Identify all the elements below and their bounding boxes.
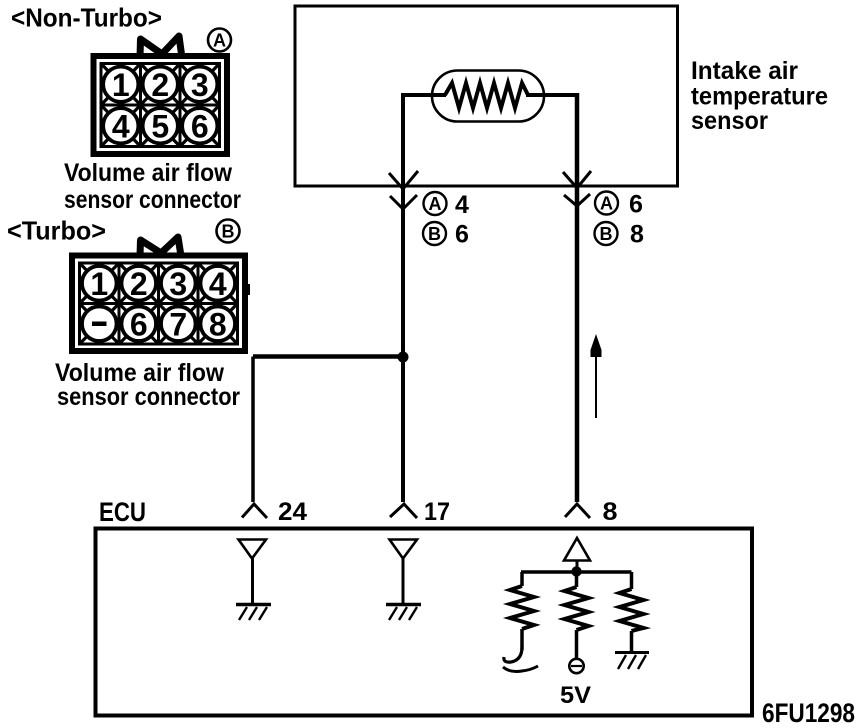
resistor R-mid zigzag bbox=[565, 587, 589, 630]
pin label B 6 (left wire) bbox=[423, 221, 469, 249]
connector A latch bbox=[140, 36, 182, 58]
svg-text:<Non-Turbo>: <Non-Turbo> bbox=[11, 3, 162, 33]
ECU pin 24 chevron bbox=[242, 504, 267, 518]
pin 5 bbox=[143, 108, 178, 144]
svg-text:3: 3 bbox=[191, 67, 209, 103]
connector B key tab on right edge bbox=[245, 284, 250, 295]
ground 2 bar bbox=[386, 603, 421, 607]
svg-text:3: 3 bbox=[169, 266, 187, 302]
resistor R-mid lead bottom bbox=[575, 630, 579, 659]
svg-text:6: 6 bbox=[191, 109, 209, 145]
pin 1 bbox=[103, 67, 138, 103]
svg-text:6: 6 bbox=[629, 191, 643, 219]
pin 7 bbox=[161, 306, 196, 342]
5V terminal circle bbox=[569, 659, 583, 673]
pin 4 bbox=[103, 108, 138, 144]
svg-text:24: 24 bbox=[278, 498, 307, 526]
pin 5 (blank dash) bbox=[82, 306, 117, 341]
svg-text:4: 4 bbox=[112, 109, 130, 145]
squiggle wire break bbox=[504, 647, 522, 662]
svg-text:1: 1 bbox=[112, 67, 130, 103]
current direction arrow (up) bbox=[591, 334, 602, 418]
svg-text:B: B bbox=[428, 224, 441, 244]
connector chevron (harness half) on left wire bbox=[390, 195, 417, 209]
wire: triangle to bus bbox=[576, 561, 579, 574]
svg-text:sensor connector: sensor connector bbox=[57, 383, 240, 411]
svg-text:B: B bbox=[222, 221, 235, 241]
svg-text:A: A bbox=[213, 30, 226, 50]
connector B body (8-pin) bbox=[72, 256, 245, 352]
svg-text:6: 6 bbox=[455, 221, 469, 249]
pin label B 8 (right wire) bbox=[595, 221, 645, 249]
svg-text:A: A bbox=[600, 193, 613, 213]
svg-text:5V: 5V bbox=[560, 682, 591, 709]
svg-text:A: A bbox=[429, 194, 442, 214]
wire: right vertical drop to ECU pin 8 bbox=[575, 93, 580, 502]
ground 3 bar bbox=[615, 651, 649, 654]
svg-text:<Turbo>: <Turbo> bbox=[7, 216, 106, 246]
wire: resistor right terminal horizontal bbox=[526, 93, 577, 97]
ground 2 wire bbox=[402, 559, 405, 605]
resistor R-right zigzag bbox=[620, 589, 644, 631]
ground 1 hatches bbox=[239, 607, 267, 620]
svg-text:5: 5 bbox=[151, 109, 169, 145]
squiggle tail bbox=[503, 666, 538, 672]
svg-text:Volume air flow: Volume air flow bbox=[64, 159, 233, 187]
pin 4 bbox=[200, 266, 235, 302]
ECU pin 17 chevron bbox=[390, 504, 417, 518]
svg-text:2: 2 bbox=[130, 266, 148, 302]
junction node (5V bus) bbox=[571, 566, 581, 576]
svg-text:7: 7 bbox=[169, 307, 187, 343]
resistor R-left lead bbox=[520, 572, 524, 586]
wire: left vertical drop to ECU pin 17 bbox=[401, 93, 405, 502]
designator B (circled) bbox=[217, 220, 240, 243]
ground 3 hatches bbox=[618, 655, 646, 669]
junction node bbox=[398, 352, 409, 363]
pin label A 4 (left wire) bbox=[424, 191, 470, 219]
connector chevron (sensor half) on right wire bbox=[563, 171, 591, 188]
svg-text:2: 2 bbox=[151, 67, 169, 103]
wire: resistor left terminal horizontal bbox=[403, 93, 446, 97]
ground 1 wire bbox=[251, 559, 254, 605]
svg-text:sensor connector: sensor connector bbox=[64, 186, 241, 214]
label Intake air temperature sensor bbox=[691, 57, 828, 135]
resistor R-left lead bottom bbox=[520, 629, 524, 650]
svg-text:1: 1 bbox=[90, 266, 108, 302]
ECU pin 8 chevron bbox=[565, 504, 590, 518]
ground 1 bar bbox=[236, 603, 271, 607]
svg-text:8: 8 bbox=[630, 221, 644, 249]
pin 3 bbox=[161, 266, 196, 302]
designator A (circled) bbox=[208, 29, 231, 52]
pin 2 bbox=[143, 67, 178, 103]
svg-text:Intake air: Intake air bbox=[691, 57, 798, 85]
connector chevron (sensor half) on left wire bbox=[389, 171, 418, 189]
svg-text:ECU: ECU bbox=[99, 497, 146, 527]
svg-text:sensor: sensor bbox=[691, 107, 768, 135]
resistor R-right lead bottom bbox=[630, 631, 634, 653]
ground 1 buffer triangle bbox=[239, 540, 267, 559]
ECU box bbox=[96, 529, 753, 716]
pin 2 bbox=[121, 266, 156, 302]
wire: vertical drop to ECU pin 24 bbox=[251, 357, 255, 503]
intake air temperature sensor box bbox=[295, 6, 678, 186]
pin label A 6 (right wire) bbox=[595, 191, 643, 219]
svg-text:6: 6 bbox=[130, 307, 148, 343]
ground 2 buffer triangle bbox=[390, 540, 418, 559]
resistor R-left zigzag bbox=[510, 586, 534, 629]
pin 8 bbox=[200, 306, 235, 342]
connector chevron (harness half) on right wire bbox=[564, 194, 590, 206]
thermistor element (stadium outline) bbox=[432, 71, 544, 122]
pin 3 bbox=[182, 67, 217, 103]
pin 1 bbox=[82, 266, 117, 302]
resistor R-right lead bbox=[630, 572, 634, 589]
svg-text:8: 8 bbox=[209, 307, 227, 343]
svg-text:4: 4 bbox=[209, 266, 227, 302]
connector A body (6-pin) bbox=[94, 56, 228, 154]
5V terminal dash bbox=[571, 665, 582, 667]
ground 2 hatches bbox=[389, 607, 417, 620]
svg-text:17: 17 bbox=[424, 498, 450, 526]
pin 6 bbox=[121, 306, 156, 342]
svg-text:6FU1298: 6FU1298 bbox=[762, 698, 855, 728]
connector B latch bbox=[140, 237, 181, 256]
thermistor resistor zigzag bbox=[445, 83, 528, 108]
wire: turbo connector to node (horizontal) bbox=[253, 354, 405, 359]
5V supply triangle bbox=[564, 538, 590, 561]
svg-text:B: B bbox=[600, 224, 613, 244]
pin 6 bbox=[182, 108, 217, 144]
resistor R-mid lead bbox=[575, 572, 579, 587]
5V bus wire bbox=[521, 570, 632, 574]
svg-text:8: 8 bbox=[603, 498, 618, 526]
svg-text:4: 4 bbox=[455, 191, 469, 219]
